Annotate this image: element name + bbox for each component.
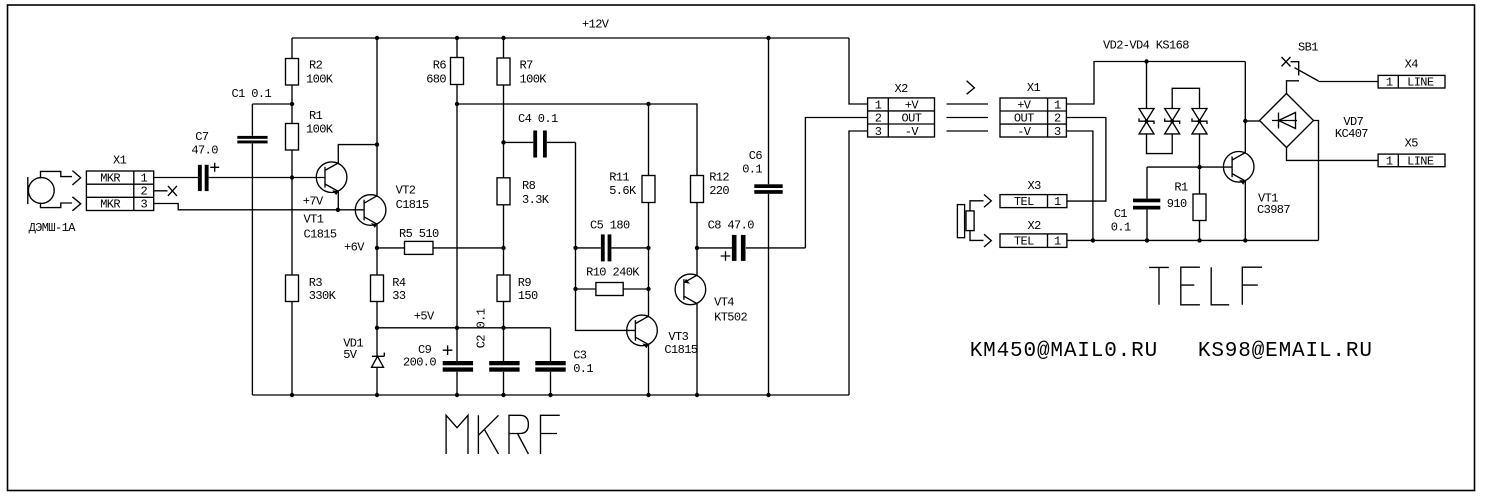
svg-text:R2: R2 — [309, 59, 323, 73]
transistor VT2 C1815 — [355, 195, 386, 228]
junction VT1 collector / bridge left — [1243, 119, 1247, 123]
svg-text:R4: R4 — [392, 276, 406, 290]
svg-text:VT2: VT2 — [396, 184, 416, 198]
wire capsule to X2 tel — [970, 231, 984, 241]
junction R10 left — [573, 287, 577, 291]
arrow into X2 tel — [984, 234, 991, 247]
svg-text:1: 1 — [1386, 155, 1393, 169]
resistor R5 510 — [405, 241, 434, 254]
wire bridge top to SB1 contact — [1287, 81, 1300, 94]
svg-text:47.0: 47.0 — [191, 144, 218, 158]
svg-text:R7: R7 — [520, 59, 534, 73]
svg-text:150: 150 — [518, 289, 538, 303]
svg-text:100K: 100K — [306, 72, 334, 86]
connector X1 (mic) — [86, 171, 153, 211]
wire VD2 top lead — [1146, 62, 1148, 109]
junction R11 top — [646, 102, 650, 106]
svg-text:+V: +V — [1017, 99, 1032, 113]
junction rail / R1 — [1197, 238, 1201, 242]
svg-text:330K: 330K — [309, 289, 337, 303]
svg-text:1: 1 — [875, 99, 882, 113]
svg-text:1: 1 — [141, 171, 148, 185]
junction ground / VD1 — [375, 393, 379, 397]
junction +12V rail / C6 — [766, 36, 770, 40]
svg-text:MKR: MKR — [100, 198, 120, 212]
resistor R2 100K — [286, 59, 299, 86]
junction C5 left — [573, 246, 577, 250]
wire C4 — [504, 141, 576, 143]
junction +12V rail / R7 — [501, 36, 505, 40]
junction rail / X1 pin3 — [1091, 238, 1095, 242]
wire R2 R1 R3 vertical — [291, 38, 293, 395]
node VD4 center — [1198, 119, 1202, 123]
svg-text:KM450@MAIL0.RU: KM450@MAIL0.RU — [970, 340, 1158, 363]
wire R11 vertical — [648, 104, 650, 289]
svg-text:C1815: C1815 — [396, 198, 429, 212]
capacitor C9 200.0 — [443, 361, 473, 372]
wire R11 R12 feed — [457, 104, 697, 176]
zener VD4 KS168 — [1192, 109, 1207, 134]
svg-text:-V: -V — [905, 125, 920, 139]
+12V top rail — [292, 37, 849, 39]
junction R7/R8/C4 node — [501, 140, 505, 144]
svg-text:C7: C7 — [195, 130, 209, 144]
svg-text:MKR: MKR — [100, 171, 120, 185]
junction +6V node / VT2 emitter — [375, 246, 379, 250]
wire C3 drop — [550, 328, 552, 395]
wire OUT node to X2 pin2 — [697, 118, 868, 248]
svg-text:C3987: C3987 — [1257, 203, 1290, 217]
wire bridge right to rail — [1314, 121, 1319, 241]
transistor VT3 C1815 — [627, 315, 658, 348]
resistor R9 150 — [497, 275, 510, 302]
wire R12 vertical — [696, 203, 698, 248]
arrow into X1 pin3 — [72, 197, 80, 211]
junction R2/R1/C1 node — [290, 102, 294, 106]
transistor VT1 C1815 — [316, 162, 347, 195]
svg-text:X4: X4 — [1405, 58, 1419, 72]
plus sign C7 — [210, 163, 219, 172]
svg-text:TEL: TEL — [1014, 195, 1034, 209]
svg-text:5V: 5V — [343, 348, 358, 362]
wire capsule to X3 — [970, 201, 984, 211]
wire R10 — [576, 288, 649, 290]
junction OUT node R12/C8/VT4 — [695, 246, 699, 250]
resistor R8 3.3K — [497, 178, 510, 205]
switch SB1 arm — [1295, 68, 1319, 81]
wire X1 pin3 -V down — [1066, 131, 1093, 240]
svg-text:R9: R9 — [518, 276, 532, 290]
wire VD2 to VD3 bottom link — [1147, 134, 1173, 154]
X1 pin2 stub — [154, 190, 168, 192]
svg-text:0.1: 0.1 — [742, 163, 762, 177]
svg-text:680: 680 — [426, 72, 446, 86]
wire C4 to VT3 base — [576, 142, 636, 330]
wire VT1 emitter down — [1244, 181, 1246, 240]
connector X3 — [1000, 195, 1067, 208]
junction R10 right / VT3 collector — [646, 287, 650, 291]
no-connect cross X1 pin2 — [168, 186, 177, 196]
wire X1 pin3 to VT2 base — [154, 204, 364, 210]
junction ground / C2 — [501, 393, 505, 397]
capacitor C8 47.0 — [732, 235, 746, 261]
svg-text:5.6K: 5.6K — [609, 184, 637, 198]
zener VD2 KS168 — [1139, 109, 1154, 134]
wire bridge bottom to X5 — [1287, 148, 1379, 161]
connector X2 (left out) — [868, 98, 935, 137]
wire X1 pin2 OUT to X3 — [1066, 118, 1106, 202]
ground/bottom rail — [252, 394, 849, 396]
switch SB1 actuator — [1291, 62, 1299, 76]
wire base node line — [1147, 166, 1232, 168]
cable dash 3 — [947, 130, 989, 132]
wire VT1 emitter — [337, 191, 339, 209]
resistor R1 100K — [286, 124, 299, 151]
svg-text:R1: R1 — [1174, 181, 1188, 195]
svg-text:X2: X2 — [1028, 219, 1042, 233]
zener VD3 KS168 — [1165, 109, 1180, 134]
svg-text:R8: R8 — [522, 179, 536, 193]
svg-text:1: 1 — [1386, 76, 1393, 90]
junction ground / VT3 emitter — [646, 393, 650, 397]
junction ground / C6 — [766, 393, 770, 397]
svg-text:ДЭМШ-1А: ДЭМШ-1А — [29, 221, 77, 235]
connector X2 (tel) — [1000, 234, 1067, 248]
plus sign C8 — [721, 251, 731, 261]
junction VT1 emitter / VT2 base — [336, 208, 340, 212]
transistor VT1 C3987 — [1223, 152, 1254, 185]
wire R1 vertical (right) — [1199, 167, 1201, 240]
plus sign C9 — [443, 345, 453, 355]
wire C1 tap — [252, 103, 292, 105]
svg-text:R12: R12 — [709, 171, 729, 185]
svg-text:0.1: 0.1 — [1111, 221, 1131, 235]
resistor R4 33 — [371, 275, 384, 302]
switch SB1 cross — [1282, 57, 1291, 66]
svg-text:C6: C6 — [749, 149, 763, 163]
wire VT4 collector down — [696, 304, 698, 395]
wire VT1 collector — [338, 145, 377, 163]
wire X1 pin1 to C7 — [154, 177, 198, 179]
junction ground / C3 — [548, 393, 552, 397]
svg-text:1: 1 — [1054, 235, 1061, 249]
wire R6 vertical — [456, 38, 458, 395]
arrow into X1 pin1 — [72, 171, 80, 185]
wire VT3 collector — [648, 289, 650, 316]
svg-text:C1815: C1815 — [304, 228, 337, 242]
junction rail / VT1 emitter — [1243, 238, 1247, 242]
capacitor C1 0.1 (left) — [237, 104, 267, 395]
svg-text:+6V: +6V — [344, 241, 365, 255]
svg-text:3.3K: 3.3K — [522, 193, 550, 207]
svg-text:KC407: KC407 — [1335, 127, 1368, 141]
svg-text:910: 910 — [1167, 197, 1187, 211]
svg-text:C1815: C1815 — [664, 343, 697, 357]
wire +12V rail to X2 pin1 — [849, 38, 868, 104]
svg-text:200.0: 200.0 — [403, 355, 436, 369]
junction +5V / R9 / C2 — [501, 326, 505, 330]
svg-text:C8 47.0: C8 47.0 — [708, 219, 755, 233]
svg-text:+V: +V — [905, 99, 920, 113]
svg-text:R1: R1 — [309, 109, 323, 123]
+5V node wire — [377, 327, 551, 329]
wire VT2 collector to rail — [376, 38, 378, 196]
telephone capsule symbol — [957, 205, 974, 238]
junction R5/R8/R9 node — [501, 246, 505, 250]
svg-text:0.1: 0.1 — [573, 362, 593, 376]
wire VT4 emitter up — [696, 248, 698, 275]
diode bridge VD7 KC407 — [1260, 94, 1314, 148]
junction ground / C9 — [455, 393, 459, 397]
transistor VT4 KT502 — [675, 274, 706, 305]
svg-text:C3: C3 — [573, 349, 587, 363]
wire R7 R8 R9 vertical — [503, 38, 505, 395]
svg-text:LINE: LINE — [1407, 76, 1434, 90]
svg-text:KS98@EMAIL.RU: KS98@EMAIL.RU — [1198, 340, 1373, 363]
svg-text:+12V: +12V — [582, 18, 610, 32]
svg-text:C4 0.1: C4 0.1 — [518, 112, 558, 126]
svg-text:VT3: VT3 — [668, 330, 688, 344]
junction +5V / R4 / VD1 — [375, 326, 379, 330]
svg-text:OUT: OUT — [902, 112, 922, 126]
svg-text:VD2-VD4 KS168: VD2-VD4 KS168 — [1103, 39, 1189, 53]
cable chevron — [967, 81, 975, 94]
big title TELF — [1149, 267, 1262, 305]
junction C5 right / R11 bottom — [646, 246, 650, 250]
svg-text:C1: C1 — [1114, 207, 1128, 221]
svg-text:2: 2 — [141, 185, 148, 199]
junction +V top line / VD2 — [1144, 59, 1148, 63]
microphone BM ДЭМШ-1А — [28, 171, 72, 207]
capacitor C2 0.1 — [489, 361, 519, 372]
wire VD3 to VD4 top link — [1172, 88, 1199, 108]
svg-text:100K: 100K — [520, 72, 548, 86]
svg-text:R6: R6 — [433, 59, 447, 73]
svg-text:-V: -V — [1017, 125, 1032, 139]
svg-text:C5 180: C5 180 — [590, 219, 630, 233]
svg-text:R3: R3 — [309, 276, 323, 290]
svg-text:2: 2 — [1054, 112, 1061, 126]
svg-text:3: 3 — [1054, 125, 1061, 139]
wire C7 to VT1 base — [209, 177, 325, 179]
junction +5V / C9 — [455, 326, 459, 330]
svg-text:2: 2 — [875, 112, 882, 126]
junction ground / R3 — [290, 393, 294, 397]
wire bottom rail to X2 pin3 — [849, 131, 868, 395]
connector X4 — [1378, 75, 1445, 88]
svg-text:+7V: +7V — [303, 195, 324, 209]
svg-text:VT4: VT4 — [714, 296, 734, 310]
resistor R6 680 — [451, 58, 464, 85]
zener diode VD1 5V — [372, 353, 385, 368]
svg-text:1: 1 — [1054, 99, 1061, 113]
resistor R10 240K — [596, 283, 623, 296]
wire X1 pin1 +V to top — [1066, 62, 1245, 105]
svg-text:X1: X1 — [113, 154, 127, 168]
capacitor C1 0.1 (right) — [1133, 199, 1160, 210]
svg-text:33: 33 — [392, 289, 406, 303]
svg-text:3: 3 — [141, 198, 148, 212]
svg-text:C1 0.1: C1 0.1 — [232, 87, 272, 101]
wire C1 vertical (right) — [1146, 167, 1148, 240]
svg-text:LINE: LINE — [1407, 155, 1434, 169]
resistor R11 5.6K — [642, 176, 655, 203]
resistor R1 910 — [1193, 194, 1206, 221]
svg-text:R10 240K: R10 240K — [586, 266, 640, 280]
wire VD4 bottom lead — [1199, 134, 1201, 167]
wire bridge left stub — [1245, 120, 1259, 122]
wire C6 vertical — [768, 38, 770, 395]
arrow into X3 — [984, 195, 991, 208]
wire C5 — [576, 247, 649, 249]
junction +12V rail / R6 — [455, 36, 459, 40]
svg-text:X1: X1 — [1027, 81, 1041, 95]
wire VT1 collector up — [1244, 62, 1246, 153]
junction R1/R3/VT1 base node — [290, 175, 294, 179]
cable dash 1 — [947, 103, 989, 105]
wire VT3 emitter — [648, 345, 650, 395]
svg-text:100K: 100K — [306, 123, 334, 137]
capacitor C3 0.1 — [535, 361, 565, 372]
resistor R3 330K — [286, 275, 299, 302]
resistor R7 100K — [497, 58, 510, 85]
junction R6 / R11-R12 feed — [455, 102, 459, 106]
svg-text:TEL: TEL — [1014, 235, 1034, 249]
capacitor C7 47.0 — [198, 165, 209, 191]
svg-text:+5V: +5V — [414, 310, 435, 324]
junction +12V rail / VT2 collector — [375, 36, 379, 40]
ground rail right — [1067, 239, 1319, 241]
capacitor C6 0.1 — [754, 184, 782, 194]
connector X1 (right in) — [1000, 98, 1066, 137]
wire VT2 emitter / R4 / VD1 vertical — [376, 224, 378, 395]
svg-text:220: 220 — [709, 184, 729, 198]
resistor R12 220 — [691, 176, 704, 203]
connector X5 — [1378, 154, 1445, 167]
cable dash 2 — [947, 117, 989, 119]
svg-text:VT1: VT1 — [304, 213, 324, 227]
svg-text:3: 3 — [875, 125, 882, 139]
node VD2 center — [1145, 119, 1149, 123]
svg-text:X2: X2 — [895, 82, 909, 96]
junction ground / VT4 collector — [695, 393, 699, 397]
junction VD4 / R1 / VT1 base node — [1197, 165, 1201, 169]
big title MKRF — [446, 415, 560, 454]
capacitor C5 180 — [601, 234, 611, 261]
svg-text:SB1: SB1 — [1298, 40, 1318, 54]
+6V node wire with R5 — [377, 247, 504, 249]
capacitor C4 0.1 — [533, 131, 547, 158]
wire SB1 to X4 — [1319, 81, 1379, 83]
junction rail / C1 — [1145, 238, 1149, 242]
node VD3 center — [1170, 119, 1174, 123]
svg-text:C2 0.1: C2 0.1 — [475, 308, 489, 348]
svg-text:R11: R11 — [609, 171, 629, 185]
svg-text:X5: X5 — [1405, 136, 1419, 150]
svg-text:X3: X3 — [1028, 179, 1042, 193]
junction VT1 collector / VT2 collector — [375, 142, 379, 146]
svg-text:KT502: KT502 — [714, 311, 747, 325]
svg-text:1: 1 — [1054, 195, 1061, 209]
svg-text:OUT: OUT — [1014, 112, 1034, 126]
svg-text:R5 510: R5 510 — [399, 227, 439, 241]
